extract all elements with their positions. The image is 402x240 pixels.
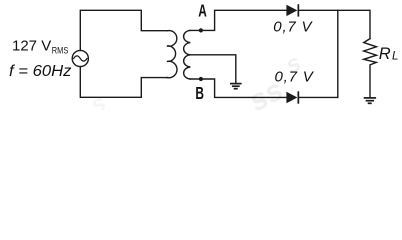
svg-text:0,7 V: 0,7 V bbox=[273, 19, 313, 36]
svg-text:R: R bbox=[379, 45, 391, 63]
svg-text:127 V: 127 V bbox=[12, 38, 51, 55]
svg-text:B: B bbox=[195, 84, 204, 104]
svg-text:f = 60Hz: f = 60Hz bbox=[9, 63, 72, 80]
svg-text:L: L bbox=[392, 51, 398, 63]
svg-text:RMS: RMS bbox=[52, 46, 69, 57]
svg-text:0,7 V: 0,7 V bbox=[275, 69, 315, 86]
svg-text:A: A bbox=[198, 1, 207, 21]
svg-text:s: s bbox=[86, 89, 110, 110]
